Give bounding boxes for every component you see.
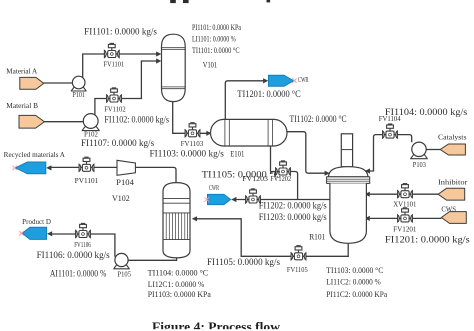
- label TI1201: [237, 89, 300, 99]
- wire E101 outlet to R101: [287, 132, 325, 174]
- svg-text:Material A: Material A: [6, 67, 37, 75]
- svg-text:FI1105: 0.0000 kg/s: FI1105: 0.0000 kg/s: [207, 257, 281, 267]
- feed arrow Catalysts: [440, 144, 465, 155]
- valve FV1103: [185, 123, 200, 137]
- pump P101: [71, 76, 87, 91]
- vessel V101 flash drum: [162, 34, 186, 101]
- wire R101 bottom to V102 via FV1105: [197, 219, 348, 256]
- wire P103 to R101 via FV1104: [370, 135, 412, 171]
- svg-text:FV1101: FV1101: [103, 60, 124, 68]
- wire Material B to P102: [44, 121, 83, 123]
- valve FV1106: [76, 223, 91, 237]
- white crop band over caption bottom: [130, 329, 350, 331]
- flow arrow into CWR top outlet: [263, 78, 268, 83]
- svg-text:Inhibitor: Inhibitor: [438, 178, 468, 186]
- svg-text:TI1104: 0.0000 °C: TI1104: 0.0000 °C: [148, 268, 209, 277]
- label FI1106: [37, 250, 111, 260]
- pump P103: [410, 142, 428, 159]
- label FI1101: [84, 26, 157, 36]
- cropped figure caption: Figure 4: Process flow: [152, 319, 281, 331]
- flow arrow into CWR mid outlet: [231, 197, 236, 202]
- valve FV1201: [398, 208, 413, 222]
- wire V102 bottom to P105: [128, 257, 176, 260]
- wire P105 to Product D via FV1106: [51, 234, 115, 257]
- svg-text:AI1101: 0.0000 %: AI1101: 0.0000 %: [50, 269, 107, 279]
- label Recycled materials A: [4, 151, 65, 159]
- label FI1103: [150, 148, 225, 158]
- label LI1101: [192, 35, 236, 44]
- flow arrow into V101 upper inlet: [156, 51, 161, 56]
- svg-text:TI1201: 0.0000 °C: TI1201: 0.0000 °C: [237, 89, 300, 99]
- label Catalysts: [438, 134, 467, 142]
- wire Inhibitor to R101 via XV1101: [369, 193, 438, 195]
- svg-text:LI12C1: 0.0000 %: LI12C1: 0.0000 %: [148, 280, 205, 289]
- label AI1101: [50, 269, 107, 279]
- label FV1101: [103, 60, 124, 68]
- label PI1103: [148, 290, 212, 299]
- label E101: [230, 149, 244, 158]
- svg-text:P104: P104: [116, 178, 134, 187]
- svg-text:FI1107: 0.0000 kg/s: FI1107: 0.0000 kg/s: [81, 138, 155, 148]
- wire E101 to CWR top: [225, 81, 264, 119]
- svg-text:PI1103: 0.0000 KPa: PI1103: 0.0000 KPa: [148, 290, 212, 299]
- label TI1101: [192, 46, 240, 55]
- label FI1107: [81, 138, 155, 148]
- svg-text:Product D: Product D: [22, 218, 51, 226]
- svg-text:TI1105: 0.0000 °C: TI1105: 0.0000 °C: [202, 170, 281, 180]
- pump P105: [113, 253, 129, 268]
- label FV1104: [379, 115, 401, 123]
- valve XV1101: [398, 184, 413, 198]
- label LI12C1: [148, 280, 205, 289]
- wire R101 left to CWR mid via FV1203: [236, 199, 330, 201]
- outlet arrow CWR: [205, 194, 231, 204]
- feed arrow Inhibitor: [438, 188, 465, 200]
- svg-text:Material B: Material B: [6, 102, 38, 110]
- cropped page heading descender marks: [170, 0, 270, 3]
- feed arrow CWS: [441, 212, 466, 224]
- svg-text:PI11C2: 0.0000 KPa: PI11C2: 0.0000 KPa: [326, 290, 387, 299]
- label TI1102: [290, 114, 347, 124]
- label P104: [116, 178, 134, 187]
- label P101: [73, 91, 86, 99]
- outlet arrow CWR: [269, 75, 297, 86]
- wire Material A to P101: [44, 82, 73, 84]
- svg-text:FI1104: 0.0000 kg/s: FI1104: 0.0000 kg/s: [385, 107, 468, 117]
- svg-text:CWR: CWR: [209, 184, 219, 192]
- label TI1104: [148, 268, 209, 277]
- valve FV1102: [107, 88, 122, 102]
- vessel R101 reactor: [327, 134, 370, 244]
- svg-text:R101: R101: [309, 232, 325, 241]
- flow arrow into Product D outlet: [47, 231, 52, 236]
- wire V102 top to Recycled via P104 PV1101: [51, 167, 176, 183]
- label PI1101: [192, 23, 241, 32]
- label FV1102: [104, 106, 126, 114]
- label P103: [413, 161, 427, 169]
- svg-text:FV1201: FV1201: [393, 225, 417, 233]
- valve FV1101: [104, 43, 119, 57]
- wire CWS to R101 via FV1201: [369, 217, 441, 219]
- flow arrow into R101 dome left: [325, 171, 330, 176]
- svg-text:FI1101: 0.0000 kg/s: FI1101: 0.0000 kg/s: [84, 26, 157, 36]
- svg-text:LI1101: 0.0000 %: LI1101: 0.0000 %: [192, 35, 236, 44]
- svg-text:P105: P105: [118, 271, 132, 279]
- label FV1202: [270, 175, 291, 183]
- svg-text:FV1105: FV1105: [287, 266, 308, 274]
- label Inhibitor: [438, 178, 468, 186]
- flow arrow into V101 lower inlet: [156, 58, 161, 63]
- svg-text:PV1101: PV1101: [75, 177, 99, 185]
- wire P102 to V101 via FV1102: [95, 61, 158, 115]
- label P102: [84, 131, 98, 139]
- svg-text:LI11C2: 0.0000 %: LI11C2: 0.0000 %: [326, 278, 381, 287]
- svg-text:TI1102: 0.0000 °C: TI1102: 0.0000 °C: [290, 114, 347, 124]
- label PV1101: [75, 177, 99, 185]
- valve FV1104: [383, 124, 398, 138]
- label V102: [112, 194, 130, 203]
- label LI11C2: [326, 278, 381, 287]
- label FI1105: [207, 257, 281, 267]
- svg-text:FV1106: FV1106: [74, 241, 91, 249]
- compressor P104: [117, 160, 135, 175]
- svg-text:FI1203: 0.0000 kg/s: FI1203: 0.0000 kg/s: [259, 212, 327, 222]
- label Material A: [6, 67, 37, 75]
- label FV1103: [181, 140, 204, 148]
- svg-text:FV1102: FV1102: [104, 106, 126, 114]
- wire Catalysts to P103: [426, 149, 440, 151]
- svg-text:V102: V102: [112, 194, 130, 203]
- label FI1203: [259, 212, 327, 222]
- flow arrow into R101 dome right: [365, 168, 370, 173]
- vessel E101 heat exchanger: [211, 119, 288, 146]
- svg-text:FV1103: FV1103: [181, 140, 204, 148]
- label Product D: [22, 218, 51, 226]
- valve FV1203: [246, 189, 261, 203]
- label CWS: [441, 206, 456, 214]
- label CWR: [298, 76, 309, 84]
- vessel V102 column with tube bundle: [163, 183, 190, 258]
- label Material B: [6, 102, 38, 110]
- svg-text:Catalysts: Catalysts: [438, 134, 467, 142]
- label FI1102: [104, 114, 169, 124]
- label FV1106: [74, 241, 91, 249]
- label FI1202: [259, 201, 327, 211]
- svg-text:FI1202: 0.0000 kg/s: FI1202: 0.0000 kg/s: [259, 201, 327, 211]
- svg-text:FI1103: 0.0000 kg/s: FI1103: 0.0000 kg/s: [150, 148, 225, 158]
- pump P102: [82, 114, 100, 131]
- label FV1203: [242, 175, 268, 183]
- svg-text:P103: P103: [413, 161, 427, 169]
- svg-text:CWR: CWR: [298, 76, 309, 84]
- valve PV1101: [79, 157, 94, 171]
- label TI1105: [202, 170, 281, 180]
- label FI1201: [385, 235, 470, 245]
- svg-text:V101: V101: [203, 60, 217, 69]
- label CWR: [209, 184, 219, 192]
- svg-text:P101: P101: [73, 91, 86, 99]
- wire P101 to V101 via FV1101: [83, 54, 158, 78]
- flow arrow into R101 right upper: [365, 192, 370, 197]
- label R101: [309, 232, 325, 241]
- svg-text:CWS: CWS: [441, 206, 456, 214]
- label FV1105: [287, 266, 308, 274]
- label FI1104: [385, 107, 468, 117]
- feed arrow Material B: [19, 115, 44, 128]
- valve FV1202: [276, 161, 291, 175]
- svg-text:TI1101: 0.0000 °C: TI1101: 0.0000 °C: [192, 46, 240, 55]
- svg-text:Figure 4: Process flow: Figure 4: Process flow: [152, 319, 281, 331]
- valve FV1105: [291, 246, 306, 260]
- flow arrow into V102: [192, 216, 197, 221]
- outlet arrow Recycled materials A: [13, 162, 46, 174]
- label PI11C2: [326, 290, 387, 299]
- svg-text:Recycled materials A: Recycled materials A: [4, 151, 65, 159]
- flow arrow into E101: [206, 131, 211, 136]
- feed arrow Material A: [20, 77, 44, 89]
- label P105: [118, 271, 132, 279]
- svg-text:TI1103: 0.0000 °C: TI1103: 0.0000 °C: [326, 266, 383, 275]
- wire V101 bottom to E101 via FV1103: [173, 102, 207, 134]
- wire E101 bottom branch via FV1202: [271, 146, 298, 199]
- label V101: [203, 60, 217, 69]
- flow arrow into R101 left inlet: [330, 197, 334, 202]
- label XV1101: [393, 201, 417, 209]
- svg-text:E101: E101: [230, 149, 244, 158]
- outlet arrow Product D: [19, 227, 46, 239]
- label FV1201: [393, 225, 417, 233]
- svg-text:FI1201: 0.0000 kg/s: FI1201: 0.0000 kg/s: [385, 235, 470, 245]
- flow arrow into Recycled outlet: [46, 165, 51, 170]
- svg-text:PI1101: 0.0000 KPa: PI1101: 0.0000 KPa: [192, 23, 241, 32]
- flow arrow into R101 right lower: [365, 216, 370, 221]
- label TI1103: [326, 266, 383, 275]
- svg-text:FI1106: 0.0000 kg/s: FI1106: 0.0000 kg/s: [37, 250, 111, 260]
- svg-text:FI1102: 0.0000 kg/s: FI1102: 0.0000 kg/s: [104, 114, 169, 124]
